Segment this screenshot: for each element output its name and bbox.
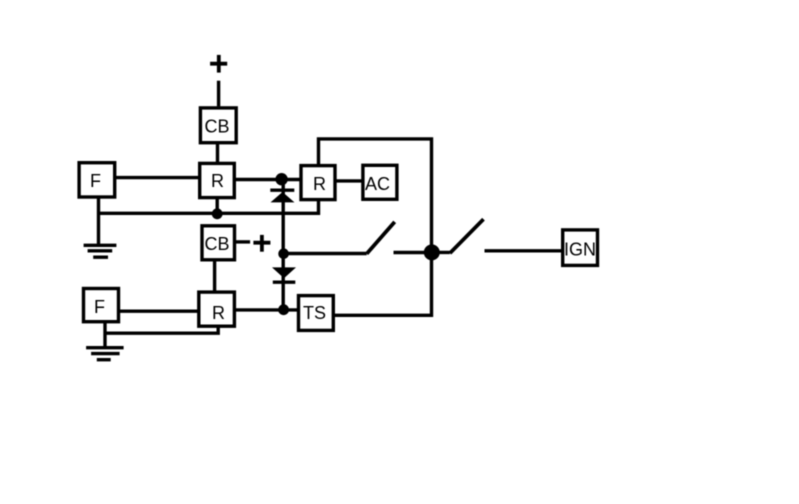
wire F2 right to R3 left [119, 310, 200, 313]
wire F1 bottom to ground [97, 197, 100, 245]
battery plus terminal (middle) [253, 235, 270, 252]
wire diode branch vertical [282, 179, 285, 310]
node junction dot at diode branch / switch wire [278, 248, 289, 259]
fuse F2 [84, 289, 119, 322]
wire CB2 bottom to R3 top [213, 260, 216, 292]
wire F2 bottom to ground [103, 322, 106, 348]
wire feed bus: R2 top pin, top run, right vertical, TS output run [319, 139, 432, 315]
diode D1 (pointing up, cathode to node) [270, 190, 294, 202]
svg-text:TS: TS [303, 303, 326, 323]
svg-text:R: R [313, 174, 326, 194]
wire R3 right to TS left [235, 308, 299, 311]
wire ground bus 2 from F2 lead to R3 bottom pin [105, 326, 218, 333]
relay R3 [199, 292, 235, 326]
wire R2 right to AC left [335, 179, 363, 182]
circuit breaker CB2 [202, 226, 235, 260]
diode D2 (pointing down, cathode to TS wire) [272, 267, 296, 282]
ignition switch IGN [563, 230, 598, 266]
wire CB2 right to + terminal [235, 240, 251, 243]
relay R2 [301, 166, 335, 200]
wire CB1 bottom to R1 top [216, 144, 219, 162]
wire right switch terminal to IGN [485, 249, 563, 252]
svg-text:AC: AC [365, 174, 390, 194]
wire center node to right switch pivot [432, 251, 450, 254]
node junction dot at R1-R2 wire / diode branch [275, 173, 287, 185]
switch blade (left switch, open) [367, 222, 395, 254]
svg-text:F: F [90, 171, 101, 191]
wire R1 right to R2 left [234, 178, 302, 181]
svg-text:CB: CB [204, 117, 229, 137]
svg-text:IGN: IGN [564, 240, 596, 260]
wire left switch terminal to center node [394, 251, 432, 254]
wire node to left switch pivot [284, 252, 367, 255]
ground symbol (upper) [84, 245, 117, 257]
circuit breaker CB1 [200, 108, 236, 143]
svg-text:R: R [212, 303, 225, 323]
node junction dot on ground bus below R1 [212, 208, 223, 219]
svg-text:R: R [211, 171, 224, 191]
wire F1 right to R1 left [115, 176, 201, 179]
battery plus terminal (top) [210, 55, 227, 73]
svg-text:F: F [94, 297, 105, 317]
switch blade (right switch, open) [450, 219, 484, 253]
node big junction dot on right vertical [424, 244, 440, 260]
svg-text:CB: CB [204, 234, 229, 254]
relay R1 [200, 163, 235, 197]
thermal switch TS [299, 296, 334, 331]
wire R1 bottom pin to ground bus [215, 198, 218, 214]
fuse F1 [79, 163, 115, 197]
node junction dot at diode branch / TS wire [278, 304, 289, 315]
ground symbol (lower) [86, 348, 124, 360]
wire ground bus from F1 ground lead to R2 bottom pin [99, 200, 319, 213]
wire from + terminal down to CB1 top [217, 81, 220, 107]
accessory AC [363, 165, 397, 199]
